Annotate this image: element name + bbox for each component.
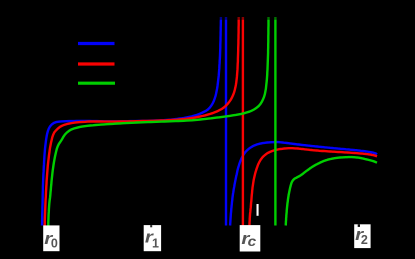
x tick label r0 xyxy=(43,225,59,251)
svg-text:c: c xyxy=(248,233,257,249)
blue curve right branch xyxy=(230,142,377,225)
dark anti-aliased tips at top clip of asymptote lines xyxy=(219,16,229,20)
legend red line xyxy=(78,62,115,65)
svg-text:1: 1 xyxy=(152,236,159,250)
green pole vertical xyxy=(274,17,276,226)
white tick near rc xyxy=(257,204,259,216)
x tick label rc xyxy=(240,225,261,251)
green curve right branch xyxy=(286,157,377,225)
legend green line xyxy=(78,82,115,85)
svg-text:2: 2 xyxy=(361,233,368,247)
green curve left branch xyxy=(48,17,268,226)
x tick label r1 xyxy=(144,225,161,251)
blue curve left branch xyxy=(42,17,221,226)
black tick notch over r1 box xyxy=(150,225,152,227)
svg-text:0: 0 xyxy=(51,236,58,250)
black tick notch over r2 box xyxy=(358,224,360,227)
blue pole vertical xyxy=(225,17,227,226)
x tick label r2 xyxy=(354,224,370,248)
red pole vertical xyxy=(242,17,244,226)
red curve left branch xyxy=(45,17,239,226)
red curve right branch xyxy=(249,148,377,225)
legend blue line xyxy=(78,42,115,45)
